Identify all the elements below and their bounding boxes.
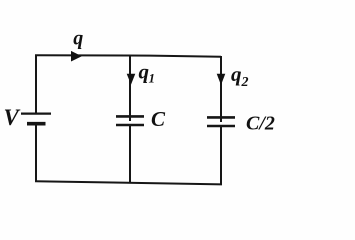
svg-text:C: C xyxy=(151,107,166,131)
svg-text:q: q xyxy=(73,27,83,49)
svg-text:V: V xyxy=(4,105,21,130)
svg-text:2: 2 xyxy=(241,75,249,90)
svg-text:C/2: C/2 xyxy=(246,112,275,134)
svg-text:q: q xyxy=(139,59,150,83)
svg-text:1: 1 xyxy=(149,71,156,86)
svg-text:q: q xyxy=(231,62,242,86)
